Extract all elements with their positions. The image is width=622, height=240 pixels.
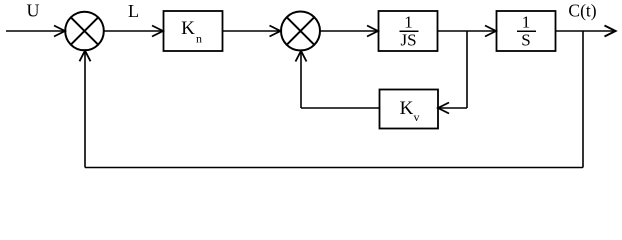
- arrowhead into Kv right side: [438, 103, 449, 114]
- svg-text:n: n: [196, 32, 202, 46]
- label 1/JS fraction: [400, 13, 419, 50]
- svg-text:K: K: [400, 98, 414, 119]
- wire inner feedback into Kv: [439, 107, 467, 109]
- svg-text:K: K: [181, 18, 195, 39]
- summing junction 2 (circle with X): [281, 12, 320, 51]
- wire inner feedback tap down from main line: [466, 31, 468, 108]
- svg-text:L: L: [128, 1, 139, 21]
- svg-text:JS: JS: [400, 31, 416, 50]
- arrowhead into 1/JS: [367, 26, 378, 37]
- svg-text:v: v: [414, 110, 420, 124]
- wire summing junction 1 to Kn block: [104, 30, 162, 32]
- wire outer feedback up to summing junction 1: [84, 52, 86, 168]
- label Kv: [400, 98, 420, 124]
- wire Kn to summing junction 2: [223, 30, 280, 32]
- wire output line: [556, 30, 615, 32]
- svg-text:C(t): C(t): [568, 1, 596, 21]
- label 1/S fraction: [517, 13, 536, 50]
- summing junction 1 (circle with X): [65, 12, 104, 51]
- wire Kv output left: [301, 107, 380, 109]
- arrowhead into 1/S: [485, 26, 496, 37]
- arrowhead into Kn: [152, 26, 163, 37]
- label Kn: [181, 18, 202, 46]
- arrowhead into summing junction 1: [54, 26, 65, 37]
- arrowhead into summing junction 2: [270, 26, 281, 37]
- block Kn: [164, 11, 223, 51]
- arrowhead output: [605, 26, 616, 37]
- block Kv: [380, 90, 439, 129]
- block 1/JS: [379, 11, 438, 51]
- arrowhead up into summing junction 1: [80, 51, 91, 62]
- block 1/S: [497, 11, 556, 51]
- wire summing junction 2 to 1/JS block: [320, 30, 377, 32]
- svg-text:U: U: [27, 1, 40, 21]
- wire outer feedback bottom run: [85, 167, 583, 169]
- wire inner feedback up to summing junction 2: [300, 52, 302, 108]
- svg-text:1: 1: [522, 13, 531, 32]
- svg-text:1: 1: [404, 13, 413, 32]
- svg-text:S: S: [521, 31, 530, 50]
- wire input line to summing junction 1: [6, 30, 64, 32]
- wire outer feedback tap down from output line: [582, 31, 584, 168]
- arrowhead up into summing junction 2: [296, 51, 307, 62]
- wire 1/JS to 1/S block: [438, 30, 496, 32]
